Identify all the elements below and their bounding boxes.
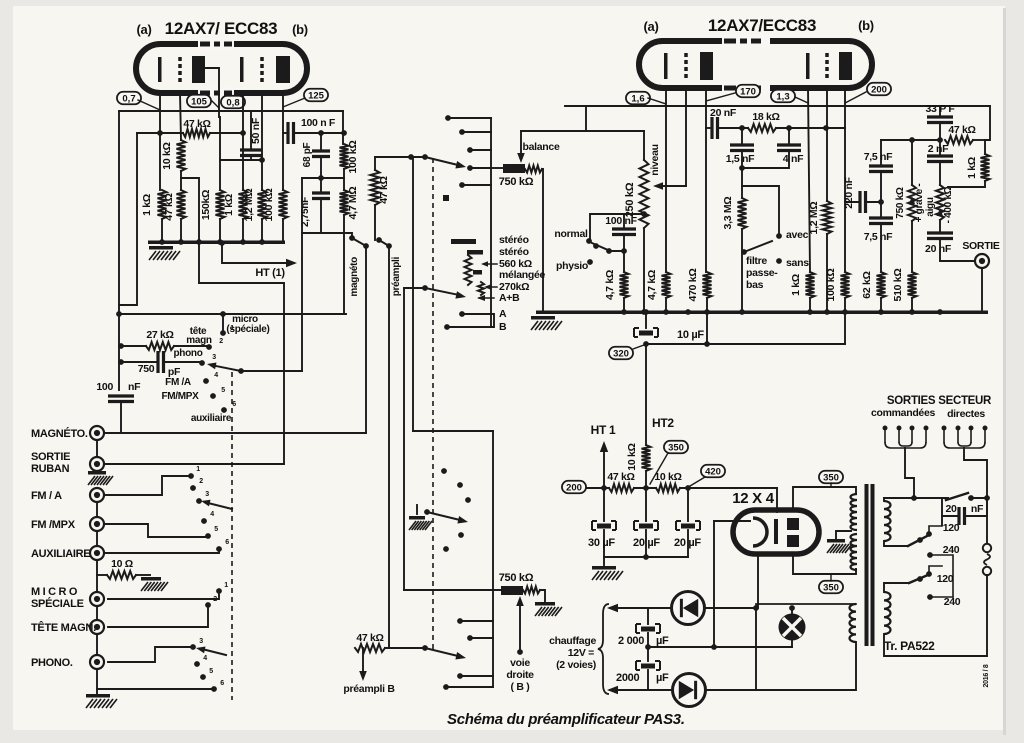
resistor 18k <box>748 124 776 132</box>
capacitor 20 µF 646 <box>634 521 658 530</box>
wire input bus down <box>412 157 414 431</box>
svg-text:100 kΩ: 100 kΩ <box>263 189 275 222</box>
wire 750p row <box>121 361 158 363</box>
wire tone top row <box>881 139 940 141</box>
switch arm mains <box>946 493 968 500</box>
potentiometer 750k grave <box>908 185 916 221</box>
wire 7,5n2 bot <box>880 224 882 273</box>
svg-text:TÊTE MAGN.: TÊTE MAGN. <box>31 621 96 634</box>
svg-text:Tr. PA522: Tr. PA522 <box>884 639 935 653</box>
svg-text:SORTIE: SORTIE <box>962 240 1000 252</box>
svg-text:magn: magn <box>186 335 212 346</box>
svg-text:(a): (a) <box>644 19 659 34</box>
node gnd right 666 <box>663 309 669 315</box>
node fil mid <box>711 644 717 650</box>
svg-text:47 kΩ: 47 kΩ <box>183 118 210 130</box>
wire 100k gnd <box>282 219 284 242</box>
contact up3 <box>196 498 202 504</box>
wire 20nF mains <box>942 498 959 516</box>
wiper arm B up <box>427 512 460 520</box>
wire lamp top <box>791 608 793 614</box>
wire 4,7 kΩ gnd <box>665 298 667 312</box>
wire oval 105 to pin <box>212 101 219 108</box>
wire c2000a top <box>647 608 649 624</box>
node magneto pivot <box>363 243 369 249</box>
resistor 1k cathode <box>158 190 167 219</box>
capacitor 20 µF 688 <box>676 521 700 530</box>
wire lamp bot <box>791 640 793 647</box>
wire 120a up <box>929 526 942 534</box>
capacitor 30 µF 604 <box>592 521 616 530</box>
contact B up4 <box>458 532 464 538</box>
wire HT1 col <box>603 448 605 488</box>
wire caps common <box>604 556 688 558</box>
svg-text:20: 20 <box>945 503 957 515</box>
wire pin commandee 3 <box>911 428 913 442</box>
svg-text:bas: bas <box>746 279 764 291</box>
node filter mid <box>739 165 745 171</box>
svg-text:200: 200 <box>871 84 887 95</box>
wire plate top loop <box>793 487 856 510</box>
capacitor 100nF input <box>108 396 134 402</box>
wire fm/mpx <box>105 524 206 537</box>
ground HV center tap <box>827 539 845 543</box>
node gnd right 624 <box>621 309 627 315</box>
resistor 510k <box>908 272 917 298</box>
oval 1,3 <box>771 90 795 103</box>
node voie droite <box>517 649 523 655</box>
wire 942 tail <box>941 516 943 525</box>
transformer core <box>865 484 869 646</box>
wire plug bottom <box>884 575 987 656</box>
brace chauffage <box>598 604 609 694</box>
wire st1 <box>448 117 491 119</box>
12X4 plate sq2 <box>787 535 799 547</box>
node gnd right 845 <box>842 309 848 315</box>
contact micro speciale <box>220 330 226 336</box>
node 420 <box>685 485 691 491</box>
node wiper pivot c <box>422 154 428 160</box>
wiper arm B lo <box>425 648 458 656</box>
oval 200 <box>562 481 586 494</box>
wire 10k HT2 bot <box>645 471 647 488</box>
wire 33p top <box>939 106 941 117</box>
bar stereo 3 <box>473 270 482 275</box>
svg-text:100 n F: 100 n F <box>301 117 336 129</box>
wire HV center tap <box>836 531 851 538</box>
svg-text:préampli: préampli <box>391 256 402 296</box>
svg-text:1,6: 1,6 <box>631 93 644 104</box>
wire oval 420 <box>690 477 705 486</box>
wire jack chain7 <box>96 669 98 694</box>
node 320 rail b <box>704 341 710 347</box>
oval 420 <box>701 465 725 478</box>
svg-text:47 kΩ: 47 kΩ <box>356 632 383 644</box>
oval 105 <box>187 95 211 108</box>
svg-text:750 kΩ: 750 kΩ <box>499 176 534 188</box>
contact sans <box>776 258 782 264</box>
wire st4 <box>470 167 491 169</box>
node gnd right 742 <box>739 309 745 315</box>
svg-text:4,7 kΩ: 4,7 kΩ <box>604 270 616 300</box>
svg-text:4,7 kΩ: 4,7 kΩ <box>646 270 658 300</box>
wire heater wind top <box>756 604 856 608</box>
wire magneto to sel <box>105 432 366 434</box>
node physio sw <box>593 243 599 249</box>
arrow aigu wiper <box>937 208 943 216</box>
resistor 10k supply <box>656 484 680 492</box>
resistor 150k <box>216 190 225 219</box>
svg-text:250 kΩ: 250 kΩ <box>624 182 636 217</box>
arrow 270k <box>484 284 491 289</box>
resistor 10k HT2 <box>642 445 651 471</box>
wire B lo4 <box>446 686 493 688</box>
node HT1 <box>601 485 607 491</box>
resistor 1 kΩ at 810 <box>806 272 815 298</box>
contact up5 <box>205 533 211 539</box>
wire fb mid <box>343 169 345 190</box>
contact physio <box>587 259 593 265</box>
wire st2 <box>462 131 491 133</box>
resistor 100k grid <box>279 190 288 219</box>
wire B <box>447 316 494 327</box>
V2b grid <box>825 53 829 79</box>
node 100nF bot <box>621 248 627 254</box>
node avec pivot <box>741 249 747 255</box>
wire 1k-b gnd <box>242 219 244 242</box>
V1a grid pin <box>180 93 181 140</box>
wire link down <box>199 283 284 464</box>
svg-text:(b): (b) <box>292 22 308 37</box>
capacitor 50nF <box>240 150 262 156</box>
contact B lo3 <box>457 673 463 679</box>
wire pin directe 3 <box>970 428 972 442</box>
V1a cathode pin <box>159 93 161 133</box>
svg-text:750 kΩ: 750 kΩ <box>499 572 534 584</box>
wire 68p bot <box>320 157 322 194</box>
svg-text:droite: droite <box>506 669 534 681</box>
capacitor 20nF mains <box>959 507 965 525</box>
svg-text:2000: 2000 <box>616 672 639 684</box>
svg-text:3: 3 <box>212 354 216 361</box>
svg-text:µF: µF <box>656 672 669 684</box>
wire 10ohm gnd <box>136 574 150 576</box>
wire 47kB <box>385 647 425 649</box>
wire lo6 <box>97 688 214 690</box>
resistor 270k tap <box>478 282 484 295</box>
wire normal common <box>609 250 624 252</box>
arrow preampli B <box>359 671 367 681</box>
node HT2 <box>643 485 649 491</box>
wire magneto contact <box>346 233 352 238</box>
pin directe 1 <box>942 426 947 431</box>
contact mains sw <box>968 495 974 501</box>
svg-text:MAGNÉTO.: MAGNÉTO. <box>31 427 88 440</box>
node gnd right 827 <box>824 309 830 315</box>
node wiper pivot <box>238 368 244 374</box>
arrow A+B <box>477 295 485 301</box>
wire 750p to phono <box>164 361 200 363</box>
V2a grid <box>684 53 688 79</box>
wire 47k sel top <box>374 157 376 170</box>
svg-text:1 kΩ: 1 kΩ <box>966 157 978 179</box>
wire balance arrow <box>520 131 522 158</box>
wire 1k top <box>159 133 161 190</box>
wire grid-a column <box>119 133 137 305</box>
wire 68p top <box>320 133 322 150</box>
wire 27k row <box>121 345 146 347</box>
potentiometer balance zigzag <box>525 166 542 173</box>
wire box normal <box>590 214 644 241</box>
wire below cap <box>120 402 122 434</box>
contact st3 <box>467 147 473 153</box>
svg-text:M I C R O: M I C R O <box>31 586 78 598</box>
wire plate bottom loop <box>793 554 856 574</box>
svg-text:HT (1): HT (1) <box>255 267 285 279</box>
wire 470 kΩ gnd <box>706 298 708 312</box>
contact st4 sel <box>467 165 473 171</box>
wire 2,75n bot <box>320 199 322 234</box>
wire 47k tone right <box>973 139 985 141</box>
svg-text:100 kΩ: 100 kΩ <box>347 141 359 174</box>
arrow 560k <box>481 261 488 266</box>
wire heater top <box>610 607 756 609</box>
svg-text:68 pF: 68 pF <box>302 143 313 168</box>
svg-text:100 kΩ: 100 kΩ <box>825 269 837 302</box>
wire heater mid <box>648 646 792 648</box>
capacitor 100nF right <box>612 229 636 235</box>
wire 1k-b top <box>242 133 244 190</box>
wiper arm up <box>208 503 232 509</box>
svg-text:+ grave -: + grave - <box>914 184 925 223</box>
wire pin directe 1 <box>943 428 945 442</box>
wire grave top <box>911 140 913 185</box>
svg-text:sans: sans <box>786 257 809 269</box>
wire cap 604 top <box>603 488 605 521</box>
V2a plate pin <box>705 88 707 272</box>
wire 200 rail a <box>586 487 609 489</box>
wire 1,5n bot <box>741 151 743 169</box>
node fb mid <box>318 175 324 181</box>
arrow 270k wire <box>487 286 497 288</box>
node cathode b junction <box>240 130 246 136</box>
wire heater right <box>755 608 757 690</box>
wire 100 kΩ gnd <box>844 298 846 312</box>
wire cap 646 bot <box>645 530 647 557</box>
svg-text:chauffage: chauffage <box>549 635 596 647</box>
svg-text:6: 6 <box>225 539 229 546</box>
svg-text:33 P F: 33 P F <box>926 103 956 115</box>
contact up6 <box>216 546 222 552</box>
wire HT1 left <box>222 243 288 263</box>
contact up1 <box>188 473 194 479</box>
node 18k right <box>786 125 792 131</box>
svg-text:2 nF: 2 nF <box>928 143 949 155</box>
svg-text:4: 4 <box>214 372 218 379</box>
svg-text:12V =: 12V = <box>568 647 594 659</box>
wire plug top <box>986 498 988 543</box>
contact st5 <box>459 182 465 188</box>
svg-text:30 µF: 30 µF <box>588 537 615 549</box>
wire gnd drop <box>603 557 605 565</box>
resistor 100k fb <box>340 144 349 169</box>
svg-text:18 kΩ: 18 kΩ <box>752 111 779 123</box>
arrow HT(1) <box>286 259 297 267</box>
contact B up2 <box>457 482 463 488</box>
contact 240a <box>927 552 933 558</box>
svg-text:mélangée: mélangée <box>499 269 545 281</box>
pin directe 3 <box>969 426 974 431</box>
arrow 560k wire <box>484 263 497 265</box>
contact 120b <box>926 571 932 577</box>
svg-text:(a): (a) <box>137 22 152 37</box>
svg-text:SPÉCIALE: SPÉCIALE <box>31 597 84 610</box>
wire cap 604 bot <box>603 530 605 557</box>
node 320 rail <box>643 341 649 347</box>
wire 4n bot <box>742 151 789 169</box>
wire right frame <box>342 111 344 144</box>
svg-text:3: 3 <box>199 638 203 645</box>
arrow wiper c <box>455 161 466 169</box>
contact FM/MPX sel <box>210 393 216 399</box>
jack MAGNETO. <box>90 426 104 440</box>
svg-text:voie: voie <box>510 657 530 669</box>
potentiometer 250k niveau <box>640 160 649 228</box>
contact up2 <box>190 485 196 491</box>
svg-text:2: 2 <box>199 478 203 485</box>
svg-text:200: 200 <box>566 482 582 493</box>
svg-text:niveau: niveau <box>649 144 661 175</box>
node 18k left <box>739 125 745 131</box>
svg-text:1,3: 1,3 <box>776 91 789 102</box>
capacitor 220nF <box>860 191 866 213</box>
wire jack chain3 <box>96 531 98 546</box>
wire 20nF to 18k <box>718 127 749 129</box>
wire pin commandee 2 <box>898 428 900 442</box>
svg-text:4,7 MΩ: 4,7 MΩ <box>347 187 359 220</box>
jack FM /MPX <box>90 517 104 531</box>
wire aigu bot <box>939 220 941 233</box>
resistor 1,2M right <box>823 201 832 234</box>
svg-text:1: 1 <box>230 325 234 332</box>
svg-text:HT2: HT2 <box>652 416 674 430</box>
resistor 100 kΩ at 845 <box>841 272 850 298</box>
svg-text:125: 125 <box>308 90 325 101</box>
arrow grave wiper <box>909 196 915 204</box>
tube 12X4 envelope <box>733 510 819 554</box>
svg-text:1 kΩ: 1 kΩ <box>141 194 153 216</box>
contact 240b <box>927 594 933 600</box>
node mains feed <box>911 495 917 501</box>
wire 10k to 47k junction <box>180 171 182 190</box>
wire B lo3 <box>460 675 493 677</box>
svg-text:3,3 MΩ: 3,3 MΩ <box>722 197 734 230</box>
svg-text:FM /A: FM /A <box>165 377 191 388</box>
wire selector bus <box>490 118 492 327</box>
wire st5 <box>462 184 491 186</box>
wire oval 0,8 to pin <box>242 102 244 108</box>
node gnd bus 181 <box>178 239 184 245</box>
wire pin directe 4 <box>984 428 986 442</box>
svg-text:5: 5 <box>209 668 213 675</box>
contact tete magn <box>206 344 212 350</box>
12X4 cathode bar <box>774 519 778 544</box>
wire 4n top <box>788 128 790 144</box>
wire 100nF to fb <box>294 132 345 134</box>
svg-text:nF: nF <box>128 381 141 393</box>
wire A+B to pot <box>404 589 501 591</box>
svg-text:27 kΩ: 27 kΩ <box>146 329 173 341</box>
arrow heater top <box>607 604 618 612</box>
svg-text:47 kΩ: 47 kΩ <box>607 471 634 483</box>
arrow A+B wire <box>479 297 494 299</box>
tube V1 12AX7 envelope <box>136 44 307 93</box>
wiper arm A+B <box>425 288 459 295</box>
svg-text:B: B <box>499 321 507 333</box>
wire niveau bottom <box>643 228 645 312</box>
transformer primary lower <box>884 592 891 634</box>
capacitor 2000uF 2 <box>636 661 660 670</box>
svg-text:4 nF: 4 nF <box>783 153 804 165</box>
wire 1k to gnd <box>161 219 163 242</box>
node frame 314 <box>116 311 122 317</box>
oval 350 bot <box>819 581 843 594</box>
resistor 62k <box>877 272 886 298</box>
wire to balance <box>491 167 503 169</box>
svg-text:2 000: 2 000 <box>618 635 644 647</box>
contact st6 mark <box>443 195 449 201</box>
wire 47k to V1b cathode <box>210 132 243 134</box>
resistor 1,2M <box>258 190 267 219</box>
wire 12X4 fil left <box>714 520 750 522</box>
resistor 4,7M fb <box>340 190 349 215</box>
svg-text:PHONO.: PHONO. <box>31 657 73 669</box>
wire cathode row <box>137 132 183 134</box>
arrow B lo <box>455 652 466 660</box>
arrow HT1 <box>600 441 608 452</box>
lamp X <box>783 618 801 636</box>
V2b plate <box>839 52 852 80</box>
lamp circle <box>779 614 806 641</box>
wire top bus left channel <box>119 110 343 112</box>
wire jack chain <box>96 440 98 456</box>
V1b cathode <box>240 57 244 82</box>
wire directes down <box>964 448 987 498</box>
svg-text:commandées: commandées <box>871 407 936 419</box>
svg-text:1 kΩ: 1 kΩ <box>223 194 235 216</box>
jack TETE MAGN. <box>90 620 104 634</box>
contact st1 <box>445 115 451 121</box>
wire 220n to tone <box>866 201 882 203</box>
svg-text:105: 105 <box>191 96 208 107</box>
svg-text:1: 1 <box>224 582 228 589</box>
wire oval 350 bot lk <box>830 574 832 581</box>
wire 10uF top <box>645 314 647 328</box>
wire 47k sel bottom <box>374 205 376 240</box>
dashed coupling line left <box>231 372 233 700</box>
V2a cathode pin <box>665 88 667 272</box>
arrow heater bot <box>607 686 618 694</box>
wire 4,7 kΩ gnd <box>623 298 625 312</box>
svg-text:physio: physio <box>556 260 588 272</box>
wire 2n bot <box>939 162 941 186</box>
contact A <box>459 311 465 317</box>
svg-text:(b): (b) <box>858 18 874 33</box>
resistor 47k cathode <box>183 129 210 137</box>
svg-text:12 X 4: 12 X 4 <box>732 490 775 507</box>
wire A <box>462 313 494 315</box>
svg-text:- 400 kΩ: - 400 kΩ <box>943 186 954 223</box>
